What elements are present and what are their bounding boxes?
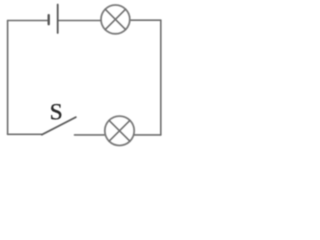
- lamp L1 circle (top): [101, 5, 130, 34]
- battery cell: long positive plate: [57, 5, 59, 34]
- switch S blade (open): [42, 117, 76, 135]
- svg-text:S: S: [50, 99, 63, 125]
- wire: battery positive plate to lamp L1: [58, 20, 101, 22]
- wire: top-left horizontal from corner to battery negative plate: [8, 20, 49, 22]
- lamp L2 cross stroke 2: [109, 120, 130, 141]
- wire: top-right horizontal from corner to lamp L1: [130, 19, 160, 21]
- wire: switch right contact to lamp L2: [75, 134, 105, 136]
- lamp L2 cross stroke 1: [109, 120, 130, 141]
- wire: left vertical side: [7, 21, 9, 135]
- wire: lamp L2 to bottom-right corner: [135, 134, 161, 136]
- lamp L1 cross stroke 1: [105, 9, 125, 29]
- battery cell: short negative plate: [48, 15, 50, 24]
- lamp L2 circle (bottom): [105, 116, 134, 145]
- lamp L1 cross stroke 2: [105, 9, 125, 29]
- wire: right vertical side: [160, 20, 162, 135]
- wire: bottom-left horizontal from corner to switch pivot: [8, 133, 42, 135]
